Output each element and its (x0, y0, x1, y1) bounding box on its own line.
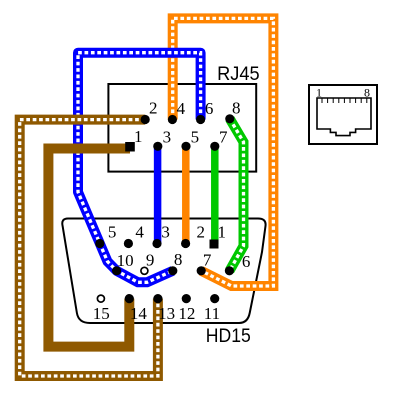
svg-text:12: 12 (178, 304, 195, 323)
svg-text:13: 13 (158, 304, 175, 323)
svg-text:10: 10 (117, 251, 134, 270)
svg-text:9: 9 (146, 251, 155, 270)
svg-text:6: 6 (205, 99, 214, 118)
svg-text:14: 14 (130, 304, 148, 323)
svg-text:4: 4 (177, 99, 186, 118)
svg-text:8: 8 (232, 98, 241, 117)
svg-text:8: 8 (174, 250, 183, 269)
svg-text:3: 3 (163, 128, 172, 147)
svg-text:15: 15 (93, 304, 110, 323)
svg-text:8: 8 (364, 86, 370, 100)
svg-text:2: 2 (197, 222, 206, 241)
svg-text:3: 3 (161, 222, 170, 241)
svg-text:1: 1 (316, 86, 322, 100)
svg-text:11: 11 (204, 304, 220, 323)
svg-text:5: 5 (108, 223, 117, 242)
svg-text:7: 7 (219, 128, 228, 147)
svg-text:6: 6 (242, 252, 251, 271)
svg-text:2: 2 (149, 98, 158, 117)
svg-text:7: 7 (203, 251, 212, 270)
svg-text:RJ45: RJ45 (217, 64, 260, 85)
svg-text:1: 1 (218, 222, 227, 241)
svg-text:HD15: HD15 (206, 326, 251, 347)
svg-text:1: 1 (134, 127, 143, 146)
svg-text:4: 4 (135, 222, 144, 241)
svg-text:5: 5 (191, 128, 200, 147)
